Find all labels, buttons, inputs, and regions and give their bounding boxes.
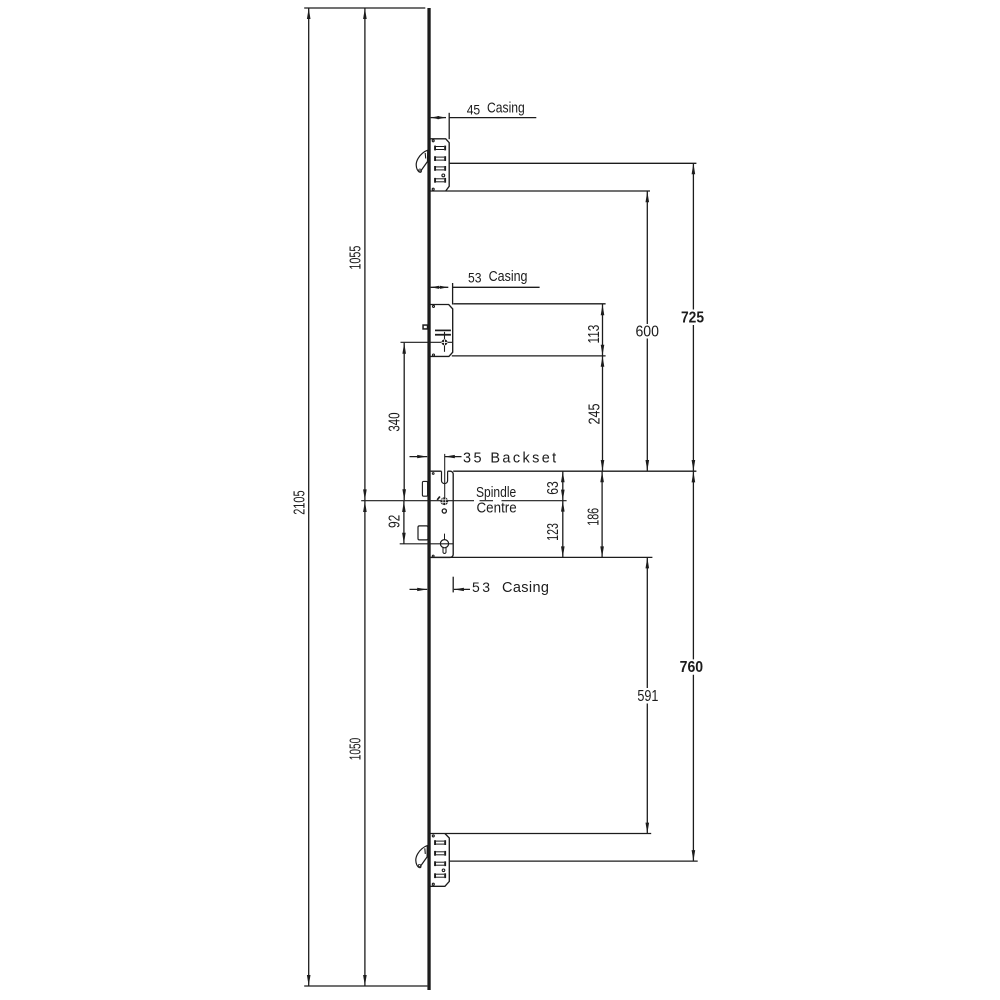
euro cylinder circle bbox=[440, 540, 448, 548]
cylinder centre extension line bbox=[400, 543, 454, 545]
label 340 bbox=[386, 412, 403, 431]
svg-text:Casing: Casing bbox=[489, 269, 528, 285]
svg-text:53: 53 bbox=[468, 269, 482, 285]
dimension 600 arrow bottom bbox=[646, 460, 650, 471]
main lock latch slot bbox=[442, 471, 448, 483]
dimension 600 arrow top bbox=[646, 191, 650, 202]
53 Casing mid arrow left bbox=[431, 286, 440, 289]
53 Casing bottom left arrow bbox=[417, 588, 427, 591]
label 760 bbox=[680, 659, 704, 676]
dimension 245 arrow top bbox=[601, 356, 605, 367]
dimension 725 line bbox=[692, 163, 694, 471]
middle lock screw bottom bbox=[433, 354, 435, 356]
middle lock centre extension line bbox=[401, 341, 453, 343]
760 bottom reference line bbox=[449, 860, 697, 862]
svg-text:760: 760 bbox=[680, 659, 704, 676]
dimension 123 arrow top bbox=[561, 501, 565, 512]
svg-text:Spindle: Spindle bbox=[476, 485, 516, 501]
svg-text:63: 63 bbox=[545, 481, 562, 495]
label Centre bbox=[477, 501, 517, 517]
45 Casing extension line bbox=[448, 113, 450, 139]
middle lock upper bar bbox=[435, 329, 451, 331]
spindle lower hole bbox=[442, 509, 446, 513]
dimension 600 line bbox=[646, 191, 648, 471]
53 Casing bottom right arrow bbox=[454, 588, 464, 591]
svg-text:186: 186 bbox=[585, 508, 602, 526]
label Casing (top) bbox=[487, 101, 525, 117]
dimension 2105 line bbox=[308, 8, 310, 986]
svg-text:Centre: Centre bbox=[477, 501, 517, 517]
dimension 1050 line bbox=[364, 501, 366, 986]
euro cylinder centre line bbox=[444, 534, 446, 540]
dimension 1055 arrow top bbox=[363, 8, 367, 19]
45 Casing leader line bbox=[449, 117, 536, 119]
dimension 245 arrow bottom bbox=[601, 460, 605, 471]
label 1055 bbox=[348, 246, 365, 270]
label Casing (mid) bbox=[489, 269, 528, 285]
dimension 186 line bbox=[601, 471, 603, 557]
spindle centre line seg3 bbox=[502, 500, 567, 502]
label 186 bbox=[585, 508, 602, 526]
bottom hook lock pin hole bbox=[442, 869, 445, 872]
top hook lock bottom edge / 600 reference line bbox=[430, 190, 650, 192]
bottom hook lock slot 1 bbox=[434, 840, 446, 845]
top hook lock case bbox=[430, 139, 449, 191]
bottom hook lock slot 3 bbox=[434, 861, 446, 866]
top hook lock screw bottom bbox=[432, 188, 434, 190]
dimension 92 line bbox=[403, 501, 405, 544]
53 Casing bottom left arrow line bbox=[410, 588, 428, 590]
dimension 760 arrow top bbox=[692, 471, 696, 482]
top hook lock slot 4 bbox=[434, 178, 446, 183]
svg-text:591: 591 bbox=[637, 688, 658, 705]
45 Casing arrow line bbox=[431, 117, 446, 119]
35 Backset left arrow line bbox=[410, 456, 428, 458]
bottom hook lock slot 4 bbox=[434, 873, 446, 878]
dimension 725 arrow bottom bbox=[692, 460, 696, 471]
middle lock adjuster stem bbox=[444, 332, 446, 352]
svg-text:725: 725 bbox=[681, 310, 704, 327]
dimension 1055 arrow bottom bbox=[363, 489, 367, 500]
svg-text:340: 340 bbox=[386, 412, 403, 431]
dimension 123 arrow bottom bbox=[561, 546, 565, 557]
label 1050 bbox=[348, 738, 365, 761]
middle lock screw top bbox=[433, 305, 435, 307]
label 53 (bottom) bbox=[472, 579, 490, 595]
label Casing (bottom) bbox=[502, 580, 549, 596]
extension line top bbox=[304, 7, 425, 9]
dimension 92 arrow top bbox=[402, 501, 406, 512]
dimension 1055 line bbox=[364, 8, 366, 500]
latch bolt bbox=[422, 481, 427, 496]
dimension 123 line bbox=[562, 501, 564, 558]
label 92 bbox=[387, 515, 404, 528]
svg-text:Casing: Casing bbox=[487, 101, 525, 117]
label 123 bbox=[545, 523, 562, 541]
53 Casing mid leader line bbox=[453, 286, 540, 288]
label 53 (mid) bbox=[468, 269, 482, 285]
main case top reference line bbox=[453, 470, 696, 472]
45 Casing arrow right bbox=[438, 116, 447, 119]
svg-text:113: 113 bbox=[586, 325, 603, 344]
53 Casing bottom right arrow line bbox=[454, 588, 470, 590]
dimension 186 arrow top bbox=[600, 471, 604, 482]
svg-text:245: 245 bbox=[586, 404, 603, 425]
35 Backset left arrow bbox=[417, 455, 427, 458]
svg-text:1050: 1050 bbox=[348, 738, 365, 761]
middle lock case bbox=[430, 305, 453, 357]
top hook lock slot 3 bbox=[434, 166, 446, 171]
bottom hook lock case bbox=[430, 834, 449, 887]
label 2105 bbox=[292, 490, 309, 514]
svg-text:2105: 2105 bbox=[292, 490, 309, 514]
dimension 245 line bbox=[602, 356, 604, 471]
dimension 113 line bbox=[602, 304, 604, 356]
dimension 760 line bbox=[692, 471, 694, 861]
label 591 bbox=[637, 688, 658, 705]
dimension 92 arrow bottom bbox=[402, 533, 406, 544]
dimension 1050 arrow bottom bbox=[363, 975, 367, 986]
label 245 bbox=[586, 404, 603, 425]
dimension 591 arrow bottom bbox=[646, 823, 650, 834]
spindle centre line seg1 bbox=[361, 500, 474, 502]
main lock case bbox=[431, 471, 454, 557]
53 Casing mid extension line bbox=[452, 283, 454, 305]
backset centre line bbox=[444, 454, 446, 498]
725 reference line bbox=[449, 162, 696, 164]
top hook lock pin hole bbox=[442, 174, 445, 177]
extension line bottom bbox=[304, 985, 427, 987]
svg-text:600: 600 bbox=[635, 323, 659, 340]
svg-text:45: 45 bbox=[467, 101, 481, 117]
35 Backset right arrow line bbox=[445, 456, 462, 458]
top hook lock slot 2 bbox=[434, 156, 446, 161]
faceplate bar bbox=[427, 8, 430, 990]
dimension 760 arrow bottom bbox=[692, 850, 696, 861]
45 Casing arrow left bbox=[431, 116, 440, 119]
53 Casing bottom extension line bbox=[452, 577, 454, 593]
label 725 bbox=[681, 310, 704, 327]
top hook lock screw top bbox=[432, 140, 434, 142]
svg-text:92: 92 bbox=[387, 515, 404, 528]
53 Casing mid arrow line bbox=[431, 286, 449, 288]
dimension 113 arrow top bbox=[601, 304, 605, 315]
dimension 63 line bbox=[562, 471, 564, 500]
label 63 bbox=[545, 481, 562, 495]
middle lock lower bar bbox=[435, 334, 451, 336]
label 45 bbox=[467, 101, 481, 117]
113 top reference line bbox=[453, 303, 605, 305]
top hook bolt bbox=[416, 150, 428, 172]
113 bottom reference line bbox=[452, 355, 606, 357]
label 113 bbox=[586, 325, 603, 344]
bottom hook lock slot 2 bbox=[434, 851, 446, 856]
dimension 186 arrow bottom bbox=[600, 546, 604, 557]
svg-text:35 Backset: 35 Backset bbox=[463, 450, 556, 466]
dimension 2105 arrow top bbox=[307, 8, 311, 19]
spindle centre line seg2 bbox=[480, 500, 494, 502]
53 Casing mid arrow right bbox=[440, 286, 449, 289]
main case bottom edge / 591 reference line bbox=[431, 556, 653, 558]
svg-text:1055: 1055 bbox=[348, 246, 365, 270]
svg-text:Casing: Casing bbox=[502, 580, 549, 596]
middle lock adjuster target bbox=[442, 339, 448, 345]
bottom hook lock screw bottom bbox=[432, 883, 434, 885]
bottom hook lock top edge / 591 bottom reference line bbox=[430, 833, 651, 835]
spindle hub bbox=[440, 497, 448, 505]
label Spindle bbox=[476, 485, 516, 501]
label 35 Backset bbox=[463, 450, 556, 466]
euro cylinder keyway bbox=[443, 547, 446, 554]
dimension 591 arrow top bbox=[646, 557, 650, 568]
dimension 340 arrow bottom bbox=[402, 489, 406, 500]
dimension 340 arrow top bbox=[402, 343, 406, 354]
top hook lock slot 1 bbox=[434, 146, 446, 151]
label 600 bbox=[635, 323, 659, 340]
dimension 591 line bbox=[646, 557, 648, 833]
svg-text:123: 123 bbox=[545, 523, 562, 541]
middle lock roller cam bbox=[422, 324, 428, 329]
bottom hook lock screw top bbox=[432, 835, 434, 837]
dimension 63 arrow bottom bbox=[561, 490, 565, 501]
spindle tick mark bbox=[437, 497, 440, 500]
bottom hook bolt bbox=[416, 846, 428, 868]
dimension 63 arrow top bbox=[561, 471, 565, 482]
main lock screw bottom bbox=[432, 555, 434, 557]
dimension 1050 arrow top bbox=[363, 501, 367, 512]
dimension 340 line bbox=[403, 343, 405, 500]
dimension 113 arrow bottom bbox=[601, 345, 605, 356]
main lock screw top bbox=[432, 473, 434, 475]
deadbolt bbox=[418, 526, 428, 540]
35 Backset right arrow bbox=[445, 455, 455, 458]
dimension 2105 arrow bottom bbox=[307, 975, 311, 986]
dimension 725 arrow top bbox=[692, 163, 696, 174]
